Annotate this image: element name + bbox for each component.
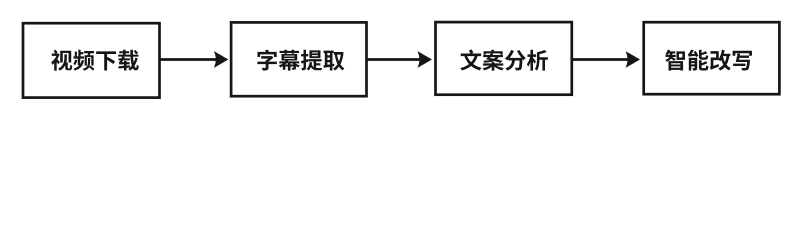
arrow/wire 2: box2 to box3 xyxy=(367,51,433,68)
process box 3: 文案分析 (copy analysis) xyxy=(436,22,572,95)
label text: 智能改写 xyxy=(665,50,752,71)
label text: 文案分析 xyxy=(460,50,548,71)
process box 4: 智能改写 (smart rewrite) xyxy=(644,22,780,94)
process box 2: 字幕提取 (subtitle extract) xyxy=(231,22,366,96)
arrow/wire 3: box3 to box4 xyxy=(572,51,640,68)
process box 1: 视频下载 (video download) xyxy=(23,23,160,97)
label text: 视频下载 xyxy=(51,50,139,71)
label text: 字幕提取 xyxy=(257,50,344,71)
arrow/wire 1: box1 to box2 xyxy=(160,51,229,68)
